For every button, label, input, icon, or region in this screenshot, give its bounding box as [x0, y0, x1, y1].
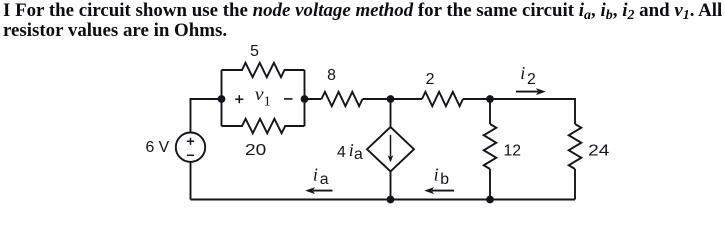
wire: dependent source to bottom rail	[390, 172, 392, 200]
svg-text:1: 1	[264, 95, 271, 110]
svg-text:2: 2	[426, 71, 435, 88]
wire: left rail bottom (source to bottom rail)	[190, 162, 192, 200]
wire: node C to resistor 2	[391, 98, 423, 100]
current arrow ia	[305, 187, 332, 194]
resistor R 8ohm	[322, 92, 363, 106]
arrow inside dependent source	[388, 135, 394, 163]
wire: resistor 12 to bottom rail	[489, 169, 491, 200]
svg-text:a: a	[320, 171, 329, 188]
resistor R 12ohm (middle vertical)	[484, 124, 497, 169]
svg-text:2: 2	[527, 71, 536, 88]
label plus of v1	[235, 95, 243, 103]
dependent source diamond 4ia	[367, 127, 414, 172]
svg-text:8: 8	[327, 67, 336, 84]
svg-text:i: i	[349, 140, 354, 160]
wire: resistor 24 to bottom rail	[574, 169, 576, 200]
svg-text:b: b	[440, 171, 449, 188]
svg-text:v: v	[255, 84, 264, 104]
node C2 dot (bottom of source)	[387, 196, 395, 204]
svg-text:4: 4	[337, 144, 346, 161]
node C dot	[387, 95, 395, 103]
svg-text:i: i	[313, 165, 318, 185]
voltage source V1 6V circle	[176, 133, 205, 162]
svg-text:24: 24	[588, 142, 609, 159]
wire: node D down to resistor 12	[489, 99, 491, 124]
minus sign inside source	[187, 154, 194, 156]
node A dot	[218, 95, 226, 103]
svg-text:20: 20	[245, 142, 266, 159]
wire: resistor 8 to node C	[363, 98, 391, 100]
label minus of v1	[284, 98, 293, 100]
resistor R 24ohm (right vertical)	[569, 124, 582, 169]
problem statement text	[3, 2, 725, 42]
svg-text:a: a	[354, 146, 363, 163]
current arrow ib	[424, 187, 454, 194]
node D2 dot (bottom of 12ohm)	[486, 196, 494, 204]
wire: parallel box left vertical	[221, 70, 223, 126]
svg-text:i: i	[434, 165, 439, 185]
resistor R 20ohm (bottom branch)	[222, 119, 305, 133]
node D dot	[486, 95, 494, 103]
wire: resistor 2 to node D	[463, 98, 490, 100]
svg-text:12: 12	[504, 142, 522, 159]
wire: node B to resistor 8	[305, 98, 322, 100]
node B dot	[301, 95, 309, 103]
plus sign inside source	[187, 138, 194, 156]
current arrow i2	[516, 88, 546, 95]
wire: left rail top (source to node A)	[191, 99, 222, 133]
wire: parallel box right vertical	[304, 70, 306, 126]
wire: node D to top-right corner and down	[490, 99, 575, 124]
resistor R 2ohm	[422, 92, 463, 106]
wire: node C down to dependent source	[390, 99, 392, 127]
svg-text:5: 5	[250, 43, 259, 60]
wire: bottom rail	[191, 199, 576, 201]
svg-text:i: i	[520, 63, 525, 83]
resistor R 5ohm (top branch)	[222, 63, 305, 77]
svg-text:6 V: 6 V	[146, 139, 170, 156]
